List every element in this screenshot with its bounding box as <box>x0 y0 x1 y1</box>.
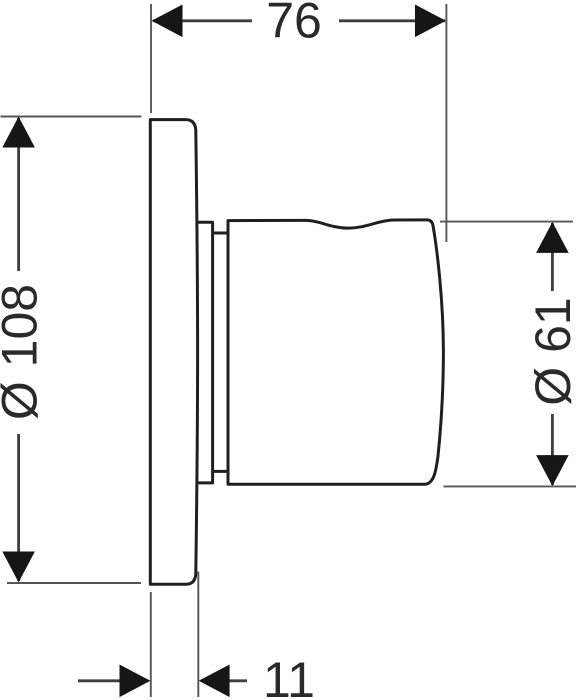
svg-text:76: 76 <box>266 0 322 49</box>
svg-text:Ø 61: Ø 61 <box>525 297 578 405</box>
svg-text:11: 11 <box>263 652 315 700</box>
svg-text:Ø 108: Ø 108 <box>0 284 48 420</box>
